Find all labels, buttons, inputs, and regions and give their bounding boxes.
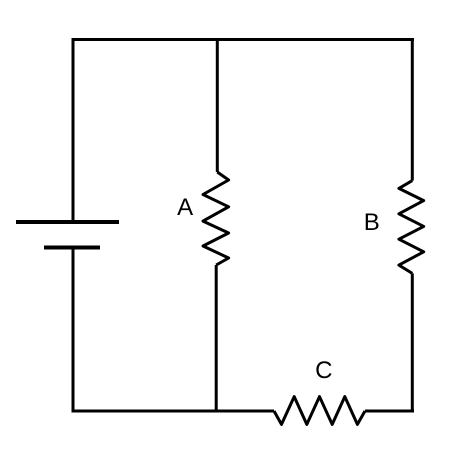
- wire middle lower: [215, 265, 218, 411]
- wire left upper (battery positive lead): [72, 38, 75, 222]
- svg-text:B: B: [364, 209, 380, 236]
- wire bottom left segment: [72, 410, 275, 413]
- wire bottom right segment: [365, 410, 414, 413]
- wire left lower (battery negative lead): [72, 248, 75, 413]
- svg-text:A: A: [177, 194, 193, 221]
- label C: [315, 357, 332, 384]
- label A: [177, 194, 193, 221]
- wire middle upper: [216, 38, 219, 172]
- resistor A: [203, 172, 229, 265]
- battery V1: [16, 222, 119, 248]
- wire top horizontal: [72, 38, 415, 41]
- wire right upper: [411, 38, 414, 181]
- svg-text:C: C: [315, 357, 332, 384]
- label B: [364, 209, 380, 236]
- resistor C: [274, 397, 365, 425]
- wire right lower: [411, 273, 414, 412]
- resistor B: [399, 181, 424, 274]
